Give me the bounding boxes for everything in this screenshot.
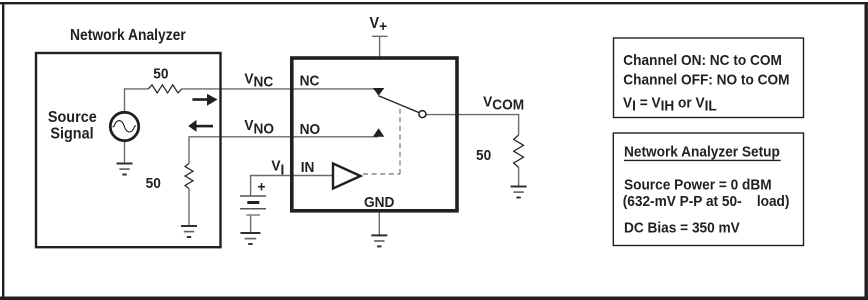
svg-text:GND: GND [364,194,394,211]
svg-text:50: 50 [476,147,491,164]
svg-text:Channel OFF: NO to COM: Channel OFF: NO to COM [623,72,789,89]
svg-text:VNO: VNO [244,118,274,138]
svg-text:50: 50 [146,175,161,192]
svg-text:Source: Source [48,108,97,126]
svg-text:NC: NC [300,73,320,90]
svg-text:Source Power = 0 dBM: Source Power = 0 dBM [624,177,772,194]
svg-text:Channel ON: NC to COM: Channel ON: NC to COM [623,52,782,69]
svg-text:V+: V+ [370,14,388,35]
svg-text:NO: NO [300,121,320,138]
svg-text:50: 50 [153,66,168,83]
svg-text:VCOM: VCOM [483,94,524,114]
svg-text:Network Analyzer Setup: Network Analyzer Setup [624,144,780,161]
svg-text:+: + [258,179,266,196]
svg-text:Network Analyzer: Network Analyzer [70,27,186,44]
svg-text:IN: IN [301,159,315,176]
svg-text:VNC: VNC [244,71,273,91]
svg-text:DC Bias = 350 mV: DC Bias = 350 mV [624,220,740,237]
svg-text:(632-mV P-P at 50- load): (632-mV P-P at 50- load) [623,193,790,210]
svg-text:VI = VIH or VIL: VI = VIH or VIL [623,95,717,115]
svg-text:Signal: Signal [50,125,93,143]
